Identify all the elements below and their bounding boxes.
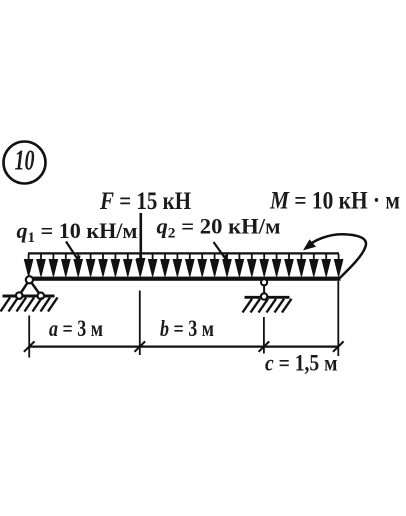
- beam: [30, 277, 341, 281]
- ground hatching right: [243, 299, 292, 313]
- extension line at left support: [28, 316, 30, 358]
- svg-text:M = 10 кН · м: M = 10 кН · м: [269, 185, 400, 214]
- svg-text:q1 = 10 кН/м: q1 = 10 кН/м: [17, 218, 138, 246]
- dimension line: [29, 346, 338, 348]
- svg-text:10: 10: [15, 144, 35, 176]
- dimension tick at x=264: [259, 341, 270, 351]
- distributed load arrows: [24, 254, 342, 276]
- leader line q1: [66, 242, 81, 263]
- svg-text:b = 3 м: b = 3 м: [160, 316, 214, 341]
- moment M arc arrow: [303, 234, 366, 278]
- svg-text:c = 1,5 м: c = 1,5 м: [265, 350, 338, 375]
- svg-text:q2 = 20 кН/м: q2 = 20 кН/м: [157, 214, 281, 242]
- ground line left: [3, 295, 55, 298]
- dimension tick at x=29: [24, 341, 35, 351]
- dimension tick at x=338: [333, 341, 344, 351]
- dimension tick at x=140: [135, 341, 146, 351]
- extension line under force F: [139, 291, 141, 356]
- leader line q2: [214, 242, 229, 262]
- problem number circle 10: [4, 142, 46, 184]
- pin support (left): [3, 276, 55, 299]
- svg-text:F = 15 кН: F = 15 кН: [99, 186, 191, 215]
- distributed load top line: [28, 252, 339, 254]
- svg-text:a = 3 м: a = 3 м: [49, 316, 103, 341]
- ground hatching left: [1, 298, 58, 312]
- ground line right: [245, 296, 290, 299]
- extension line at beam right end: [337, 281, 339, 356]
- force F arrow: [136, 213, 145, 276]
- extension line under roller: [263, 317, 265, 354]
- roller support (right): [245, 279, 290, 300]
